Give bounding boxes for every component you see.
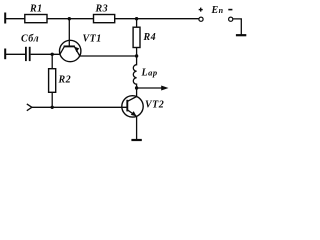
resistor R3 (94, 15, 115, 23)
wire rail R1 to R3 (47, 18, 94, 20)
transistor VT2 (122, 96, 143, 117)
wire R2 to bottom rail (51, 92, 53, 107)
svg-text:Еп: Еп (211, 5, 224, 16)
ground bar bottom (131, 139, 141, 141)
svg-text:R2: R2 (58, 75, 72, 86)
input terminal tick top-left (4, 13, 6, 24)
wire capacitor to VT1 collector (31, 53, 60, 55)
resistor R4 (133, 27, 140, 47)
svg-text:R1: R1 (29, 4, 43, 15)
plus terminal circle (199, 17, 203, 21)
svg-text:Сбл: Сбл (21, 34, 39, 45)
svg-text:R4: R4 (143, 32, 157, 43)
svg-text:VT1: VT1 (83, 34, 102, 45)
ground bar top-right (236, 34, 246, 36)
capacitor Cbl (26, 47, 30, 61)
wire rail R3 to plus terminal (115, 18, 199, 20)
wire node B down to R4 (136, 19, 138, 28)
resistor R1 (25, 15, 47, 23)
input terminal tick mid-left (4, 49, 6, 60)
wire R4 to node D (136, 48, 138, 57)
label plus sign (199, 8, 203, 12)
output arrow wire (137, 86, 169, 91)
node B junction (135, 17, 138, 20)
transistor VT1 (59, 40, 80, 61)
wire minus terminal to ground (233, 19, 241, 35)
wire bottom rail (32, 106, 127, 108)
svg-text:Lap: Lap (141, 68, 158, 79)
inductor Ldr choke (133, 56, 136, 88)
resistor R2 (49, 69, 56, 93)
node E junction (135, 86, 138, 89)
wire VT1 emitter to node D (80, 55, 137, 57)
wire VT2 emitter down (136, 116, 138, 139)
label minus sign (228, 9, 232, 11)
wire node A down to VT1 base (68, 19, 70, 47)
wire top rail left segment (5, 18, 25, 20)
node F junction R2 to rail (51, 106, 54, 109)
node D junction (135, 54, 138, 57)
node A junction (68, 17, 71, 20)
wire node C down to R2 (51, 54, 53, 68)
wire node E down to VT2 collector (136, 88, 138, 97)
bottom rail input chevron (27, 104, 32, 111)
svg-text:R3: R3 (95, 4, 109, 15)
node C junction (51, 53, 54, 56)
svg-text:VT2: VT2 (145, 100, 164, 111)
minus terminal circle (229, 17, 233, 21)
wire input to capacitor (5, 53, 25, 55)
